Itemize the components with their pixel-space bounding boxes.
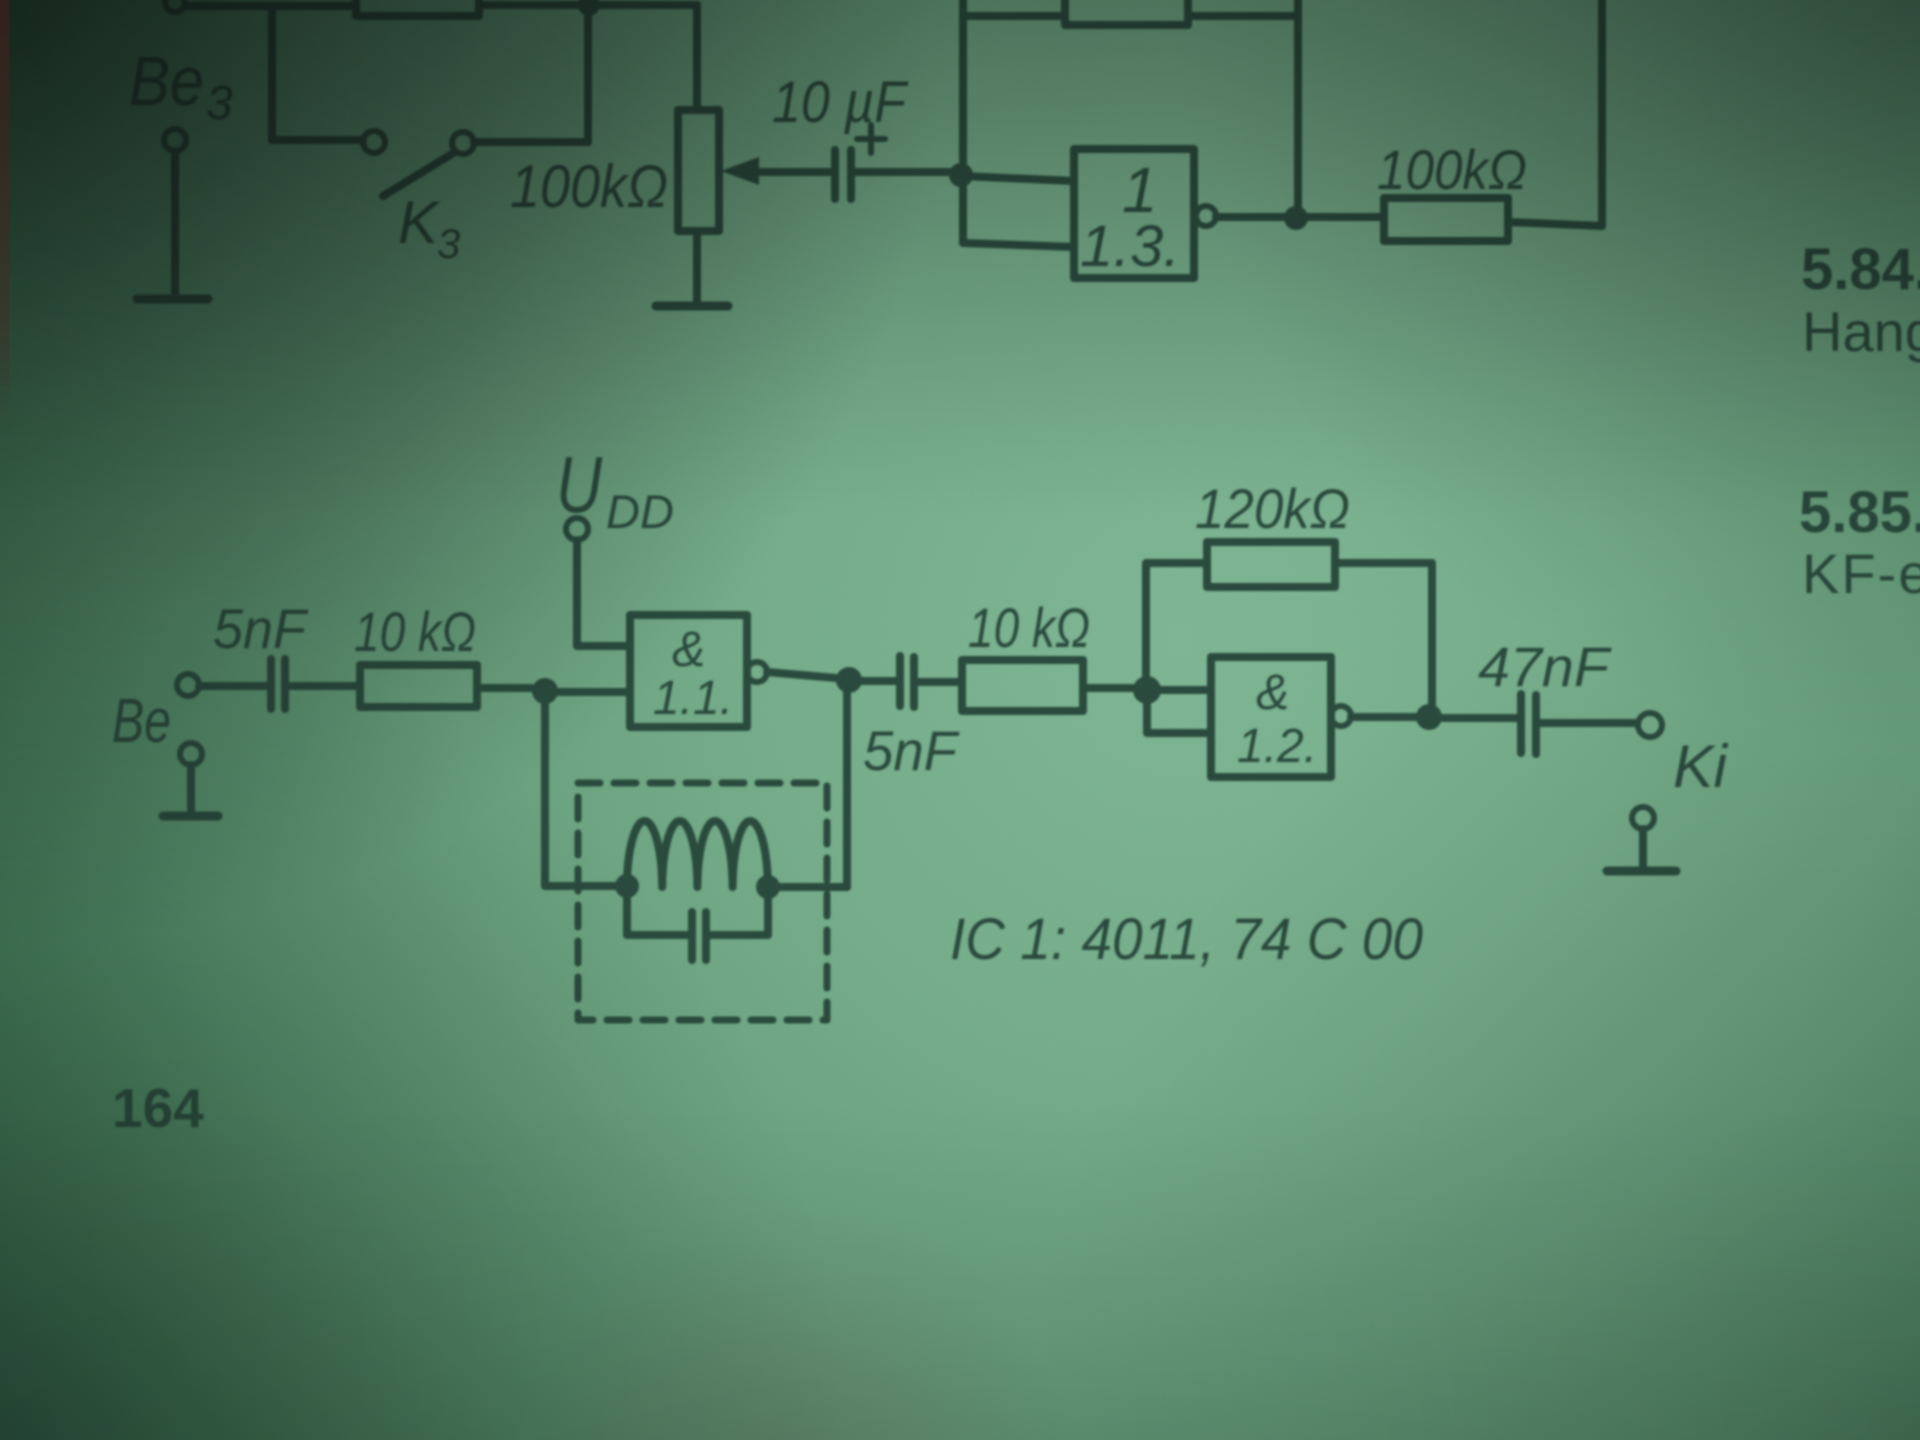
terminal Ki [1638,713,1662,737]
label Be3 [129,42,233,130]
wire switch to vertical [474,138,588,146]
wire node C down to LC tank [843,680,851,887]
wire vertical into potentiometer [693,5,701,110]
label 10kOhm input [354,600,476,663]
gate U1.3 output bubble [1196,206,1216,226]
node B junction dot [532,678,558,704]
label 5nF input [213,597,309,660]
wire node B to gate input [558,688,630,696]
label UDD [556,440,674,538]
label Be [112,687,171,756]
wire vertical right to top edge [1598,0,1606,226]
plus sign [857,125,885,153]
dashed module box [578,783,827,1020]
wire vertical right of switch [584,5,592,142]
capacitor 5nF input plates [271,659,285,709]
wire cap to resistor [288,682,360,690]
resistor (cut at top edge) [356,0,479,16]
node L-left junction dot [615,874,639,898]
resistor 10k second [962,660,1083,711]
switch K3 contact right [452,132,474,154]
wire node E to 47nF [1442,714,1517,722]
wire pot bottom [693,231,701,304]
label 5nF coupling [863,719,960,782]
wire Be to cap [199,682,268,690]
red film edge at left [0,0,9,420]
inductor L1 [627,821,768,887]
label K3 [398,189,460,267]
label 10uF [772,70,909,135]
terminal Be [177,674,199,696]
wire top to junction [479,1,697,9]
gate U1.1 output bubble [747,662,767,682]
ground Ki bar [1607,867,1676,876]
capacitor 10uF plates [831,150,839,199]
label Ki [1673,733,1729,800]
ground Be stem [187,765,195,813]
wire node D up to 120k [1146,563,1207,690]
node E junction dot [1416,704,1442,730]
terminal UDD [566,518,588,540]
node D junction dot [1133,676,1161,704]
wire to switch [272,136,363,144]
resistor 120k [1207,542,1335,587]
gate U1.3 box [1074,149,1194,278]
ground Be terminal circle [180,743,202,765]
wire top feedback right segment [1188,12,1298,20]
ground Ki stem [1639,829,1647,868]
capacitor of LC tank wires [627,898,768,935]
node L-right junction dot [756,875,780,899]
label 120kOhm [1195,477,1350,540]
wire vertical to output node [1294,0,1302,218]
node A junction dot [949,163,973,187]
wire 47nF to Ki [1540,719,1637,727]
gate U1.2 output bubble [1331,706,1351,726]
wire resistor to node B [477,684,532,692]
wire node C to 5nF coupling cap [862,677,897,685]
resistor 10k input [360,665,477,707]
gate U1.3 input wires [961,176,1074,247]
capacitor 5nF coupling plates [900,656,914,707]
switch K3 lever [383,152,455,196]
wire resistor to right vertical [1508,222,1602,226]
junction dot top [578,0,600,16]
wire node B down to LC tank [545,702,615,886]
wire resistor to node D [1083,684,1133,692]
wire top left [185,2,356,10]
wire output to node C [767,672,836,678]
wire top feedback left segment [963,12,1065,20]
capacitor of LC tank plates [692,912,706,960]
wire vertical left branch [268,6,276,140]
ground Be bar [163,812,218,821]
gate U1.2 input wires [1147,690,1211,733]
gate U1.2 box [1211,657,1331,777]
wire 120k to output node [1335,563,1432,717]
potentiometer wiper arrow [752,168,835,176]
label IC types [950,907,1423,972]
ground below potentiometer [656,302,728,311]
potentiometer 100k body [678,110,719,231]
junction dot output node [1284,206,1308,230]
label 100kOhm top-left [510,153,668,220]
ground Be3 stem [171,151,179,296]
terminal Be3 top edge [165,0,185,12]
ground Be3 bar [137,295,208,304]
node C junction dot [836,667,862,693]
ground Ki terminal circle [1632,807,1654,829]
gate U1.1 box [630,615,747,727]
wire gate output [1216,213,1384,221]
resistor 100k right [1384,198,1508,241]
wire cap to resistor 10k [917,678,962,686]
wire cap to node [855,168,952,176]
resistor feedback (cut at top edge) [1065,0,1188,25]
wire UDD to gate [577,540,630,646]
label 47nF [1478,635,1612,698]
wire feedback vertical from top edge [959,0,967,175]
wire L-right to vertical [768,883,847,891]
label 100kOhm right [1377,138,1527,201]
wire bubble to node E [1351,713,1416,721]
label 10kOhm second [968,596,1090,659]
capacitor 47nF plates [1521,694,1536,754]
switch K3 contact left [363,131,385,153]
terminal Be3 lower [164,129,186,151]
